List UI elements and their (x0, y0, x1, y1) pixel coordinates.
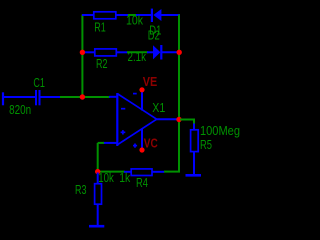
ground under R3 (89, 225, 104, 228)
resistor R2 (95, 49, 117, 56)
svg-text:820n: 820n (9, 103, 31, 117)
resistor R3 (95, 184, 102, 205)
wire R3 top lead (97, 173, 99, 185)
svg-text:R5: R5 (200, 138, 212, 152)
junction dot feedback/R3/R4 (95, 169, 100, 174)
wire R1 right lead (116, 14, 128, 16)
wire top branch corner segment (82, 14, 94, 16)
wire D1 left lead (136, 14, 151, 16)
resistor R1 (94, 12, 116, 19)
resistor R5 (191, 130, 199, 152)
junction dot rail/R2 branch (80, 50, 85, 55)
svg-text:D2: D2 (148, 29, 160, 43)
ground under R5 (186, 174, 202, 177)
wire R2 right lead (116, 51, 127, 53)
wire opamp upper input stub (109, 96, 117, 98)
junction dot C1/rail (80, 94, 85, 99)
VC pin plus mark (133, 144, 137, 148)
svg-text:2.1k: 2.1k (128, 50, 147, 64)
wire R5 bottom lead (193, 152, 195, 176)
junction dot output (176, 117, 181, 122)
diode D2 (153, 45, 179, 60)
op-amp VC supply pin (141, 129, 143, 149)
svg-text:R4: R4 (136, 176, 148, 190)
wire opamp output (157, 118, 179, 120)
wire feedback vertical (97, 143, 99, 172)
op-amp minus input mark (121, 108, 125, 110)
op-amp X1 triangle (117, 93, 156, 146)
wire branch2 green segment (127, 51, 148, 53)
svg-text:1k: 1k (119, 171, 131, 185)
wire branch1 green segment (128, 14, 137, 16)
wire R3 bottom lead (97, 204, 99, 226)
VE pin dot (139, 87, 144, 92)
port bar at C1 input (2, 92, 4, 105)
wire right vertical rail (178, 15, 180, 172)
wire C1 to opamp +in (60, 96, 110, 98)
wire D2 left lead (147, 51, 154, 53)
wire output to R5 (180, 119, 194, 125)
wire lower input green segment (98, 142, 104, 144)
wire R4 to rail corner (164, 171, 180, 173)
VE pin minus mark (133, 93, 137, 95)
VC pin dot (139, 147, 144, 152)
wire R5 top lead (193, 124, 195, 131)
wire left vertical rail (81, 15, 83, 98)
svg-text:VE: VE (143, 75, 158, 89)
op-amp VE supply pin (141, 91, 143, 111)
wire R2 left lead (82, 51, 95, 53)
junction dot D2/rail (177, 50, 182, 55)
wire R4 left lead (124, 171, 131, 173)
wire opamp lower input stub (103, 142, 117, 144)
wire bottom green segment (98, 171, 125, 173)
capacitor C1 (36, 90, 60, 105)
svg-text:VC: VC (144, 137, 158, 151)
resistor R4 (131, 169, 152, 176)
diode D1 (151, 9, 180, 22)
svg-text:R2: R2 (96, 57, 108, 71)
wire C1 left lead (3, 96, 36, 98)
svg-text:R3: R3 (75, 183, 87, 197)
wire R4 right lead (152, 171, 165, 173)
svg-text:100Meg: 100Meg (200, 124, 240, 138)
svg-text:R1: R1 (94, 21, 106, 35)
svg-text:10k: 10k (126, 14, 144, 28)
op-amp plus input mark (121, 130, 126, 134)
svg-text:X1: X1 (152, 101, 165, 115)
svg-text:C1: C1 (33, 76, 45, 90)
